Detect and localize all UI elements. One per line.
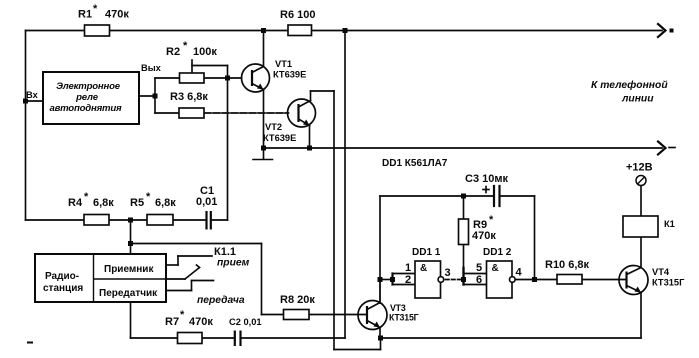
svg-text:реле: реле [75,92,99,103]
svg-text:0,01: 0,01 [196,196,217,208]
svg-text:DD1 1: DD1 1 [412,247,441,258]
svg-text:&: & [492,263,499,274]
svg-text:*: * [180,309,185,321]
svg-text:С2 0,01: С2 0,01 [229,317,262,327]
svg-text:R5: R5 [130,197,144,209]
svg-text:*: * [489,214,494,226]
svg-text:Вх: Вх [26,90,39,100]
svg-text:DD1 2: DD1 2 [483,247,512,258]
svg-text:6,8к: 6,8к [155,197,176,209]
svg-text:470к: 470к [189,316,213,328]
svg-text:100к: 100к [193,46,217,58]
svg-text:VT4: VT4 [652,267,670,277]
svg-text:КТ315Г: КТ315Г [652,278,685,288]
svg-text:R3 6,8к: R3 6,8к [170,91,208,103]
svg-text:*: * [93,3,98,15]
svg-text:линии: линии [621,94,654,105]
svg-text:передача: передача [197,295,245,306]
svg-text:VT1: VT1 [275,59,292,69]
svg-text:станция: станция [43,283,83,294]
svg-text:КТ315Г: КТ315Г [389,313,419,323]
svg-text:+12В: +12В [626,162,653,174]
svg-text:5: 5 [476,262,482,274]
svg-text:2: 2 [405,274,411,286]
svg-text:R6 100: R6 100 [280,9,315,21]
svg-text:R7: R7 [165,316,179,328]
svg-text:Радио-: Радио- [45,271,79,282]
svg-text:470к: 470к [105,9,129,21]
svg-text:6: 6 [476,274,482,286]
svg-text:R1: R1 [78,9,92,21]
svg-text:R2: R2 [166,46,180,58]
svg-text:*: * [183,40,188,52]
svg-text:6,8к: 6,8к [93,197,114,209]
svg-text:3: 3 [445,267,451,279]
svg-text:Приемник: Приемник [104,264,154,275]
svg-text:4: 4 [516,267,523,279]
svg-text:Передатчик: Передатчик [99,288,158,299]
svg-text:R8 20к: R8 20к [280,294,315,306]
svg-text:*: * [146,191,151,203]
svg-text:К1.1: К1.1 [214,246,236,258]
svg-text:VT2: VT2 [265,122,282,132]
svg-text:VT3: VT3 [390,303,406,313]
svg-text:*: * [84,191,89,203]
svg-text:&: & [420,263,427,274]
svg-text:К1: К1 [664,219,675,229]
svg-text:1: 1 [405,262,411,274]
svg-text:автоподнятия: автоподнятия [49,103,122,114]
svg-text:прием: прием [217,258,250,269]
svg-text:КТ639Е: КТ639Е [273,70,306,80]
svg-text:Вых: Вых [141,63,162,73]
svg-text:470к: 470к [472,230,496,242]
svg-text:Электронное: Электронное [56,81,121,92]
svg-text:DD1 К561ЛА7: DD1 К561ЛА7 [382,158,448,169]
svg-text:К телефонной: К телефонной [591,79,668,91]
svg-text:С3 10мк: С3 10мк [465,173,508,185]
svg-text:R4: R4 [68,197,83,209]
svg-text:R10 6,8к: R10 6,8к [545,259,590,271]
svg-text:КТ639Е: КТ639Е [263,133,296,143]
